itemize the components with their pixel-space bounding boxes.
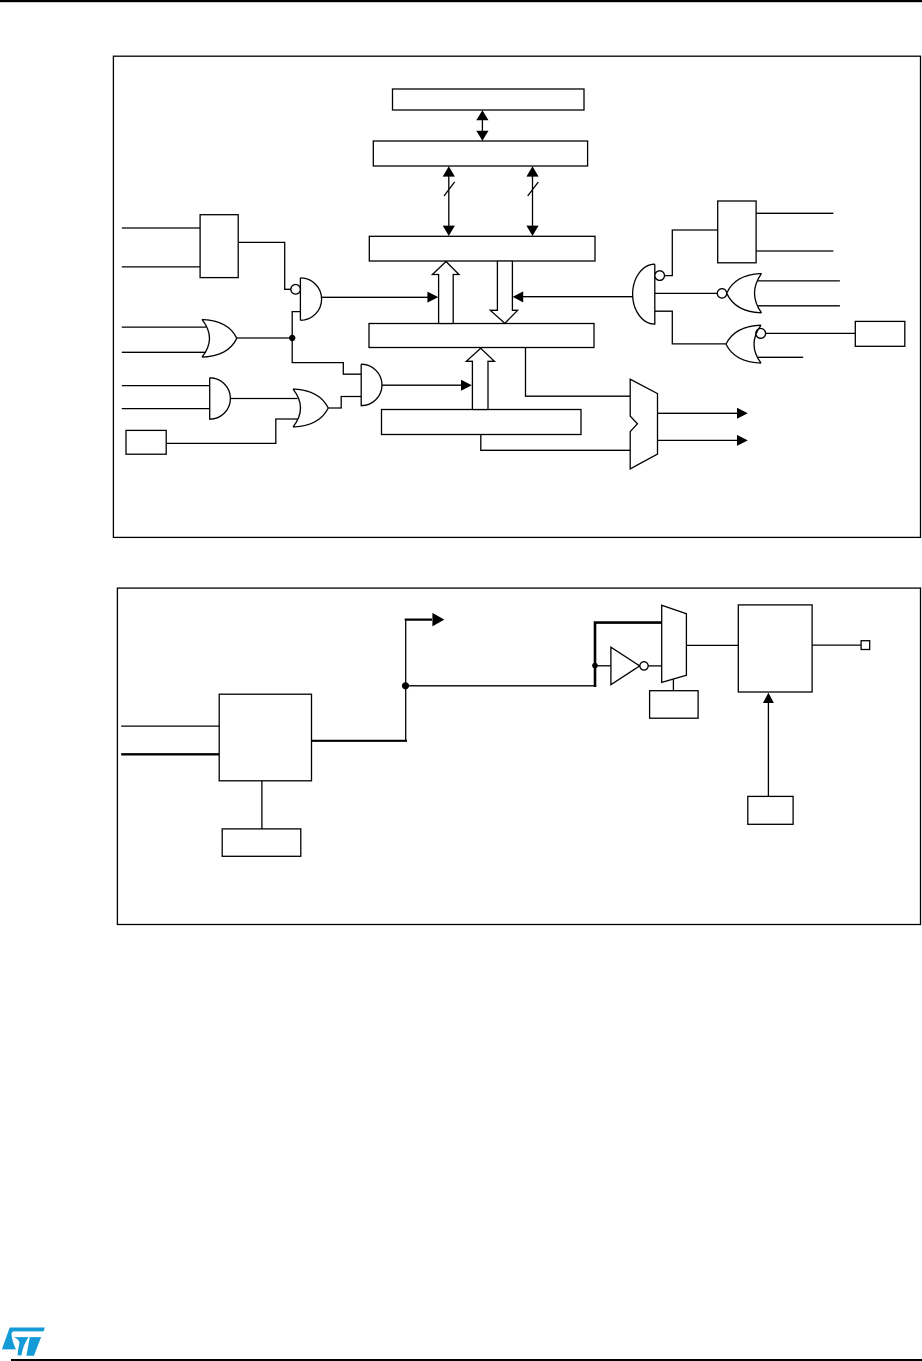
register block R1 (top) [393, 89, 585, 110]
input wire G3-b [122, 408, 210, 410]
output wire X3-b [756, 250, 833, 252]
nor-gate G7 (mirrored) [727, 274, 762, 313]
wire G4 out to G5 lower input [328, 397, 361, 409]
figure frame (diagram 2) [117, 588, 920, 924]
wire bubble G8 to box X4 [766, 332, 856, 334]
input wire G2-a [122, 326, 206, 328]
or-gate G8 (mirrored, inverted top input) [726, 325, 761, 363]
mux M1 output a with arrowhead [658, 408, 748, 419]
wire Y4 out to pin [812, 644, 861, 646]
junction J1 [289, 335, 295, 341]
register block R2 [373, 141, 587, 166]
wire Y1 to Y2 [261, 781, 263, 829]
wire M2 select to box Y3 [672, 679, 674, 691]
bubble G8 top input [756, 329, 766, 339]
or-gate G2 [202, 320, 237, 358]
footer rule [11, 1359, 922, 1361]
input wire G7-b [758, 305, 840, 307]
block arrow up B1 (R4 to R3) [432, 262, 459, 324]
mux M2 [662, 605, 687, 682]
input wire G7-a [758, 280, 840, 282]
wire G2 out to junction [237, 337, 292, 339]
block arrow up B3 (R5 to R4) [466, 348, 494, 409]
wire M2 out to Y4 [686, 644, 738, 646]
and-gate G1 (inverted top input) [300, 278, 321, 320]
bus double arrow A3 (right, R2-R3) [526, 166, 538, 236]
figure frame (diagram 1) [113, 56, 920, 537]
ST logo [2, 1328, 45, 1356]
wire and1-out to B1 with arrowhead [321, 292, 438, 303]
register block R4 [369, 324, 594, 348]
bubble U1 [640, 662, 648, 670]
bubble G6 top input [655, 271, 665, 281]
wire and4-out to B3 with arrowhead [382, 380, 472, 391]
wire G3 out to G4 [230, 398, 297, 400]
wire G6 bubble to box X3 [665, 230, 718, 276]
input wire G3-a [122, 385, 210, 387]
wire G6 mid input to G7 [655, 292, 718, 294]
wire U1 to mux M2 [648, 665, 662, 667]
flag box X2 (bottom-left) [126, 430, 166, 454]
wire X2 to G4 lower input [166, 419, 297, 443]
pin square P1 [861, 641, 870, 650]
register block R3 [369, 236, 595, 261]
inverter U1 [611, 647, 640, 685]
logo S-middle [14, 1337, 29, 1355]
input wire Y1-b (thick) [121, 753, 219, 755]
wire G6 lower input to G8 [655, 311, 726, 344]
and-gate G3 [210, 378, 231, 419]
fuse box Y2 [222, 829, 301, 856]
mux M1 [630, 379, 657, 469]
bubble G1 [291, 285, 301, 295]
wire J1 to G5 top input [292, 338, 361, 374]
double arrow A1 (R1-R2) [476, 110, 488, 140]
riser J3 (thick) [594, 623, 662, 687]
wire J3 to inverter [595, 665, 611, 667]
input wire X1-b [122, 266, 200, 268]
header rule [0, 0, 922, 2]
or-gate G4 [293, 389, 328, 427]
wire J2 up to arrow (thick) [405, 613, 445, 686]
wire R5 to mux M1 input b [481, 435, 630, 451]
wire Y5 to Y4 with up arrowhead [763, 693, 774, 797]
counter box Y4 [738, 605, 812, 692]
and-gate G6 (mirrored, 3-input) [633, 264, 655, 324]
input wire X1-a [122, 227, 200, 229]
logo wing+bar [2, 1328, 45, 1350]
output box X3 (top-right) [718, 201, 756, 263]
input wire Y1-a (thin) [121, 725, 219, 727]
wire X1 to and1 bubble [238, 242, 291, 289]
mux M1 output b with arrowhead [658, 435, 748, 446]
bubble G7 output [717, 289, 726, 298]
flag box X4 (right) [855, 321, 905, 346]
bus double arrow A2 (left, R2-R3) [443, 166, 455, 236]
control box Y5 [748, 796, 793, 824]
block arrow down B2 (R3 to R4) [490, 261, 517, 323]
output wire X3-a [756, 212, 833, 214]
select box Y3 [650, 691, 699, 719]
wire Y1 output to junction J2 (thick) [312, 740, 408, 742]
wire J2 right to J3 riser [406, 685, 597, 687]
input box X1 (top-left) [200, 215, 238, 278]
and-gate G5 [361, 364, 382, 406]
wire J1 to G1 lower input [292, 312, 300, 338]
input wire G8-b [757, 356, 803, 358]
wire R4 to mux M1 input a [526, 348, 631, 397]
input wire G2-b [122, 351, 206, 353]
junction J2 [402, 682, 409, 689]
logo T-stem [26, 1337, 41, 1356]
oscillator box Y1 [219, 694, 311, 781]
register block R5 [382, 410, 582, 435]
junction J3 [592, 663, 598, 669]
wire and5-out to B2 with arrowhead [513, 291, 633, 302]
